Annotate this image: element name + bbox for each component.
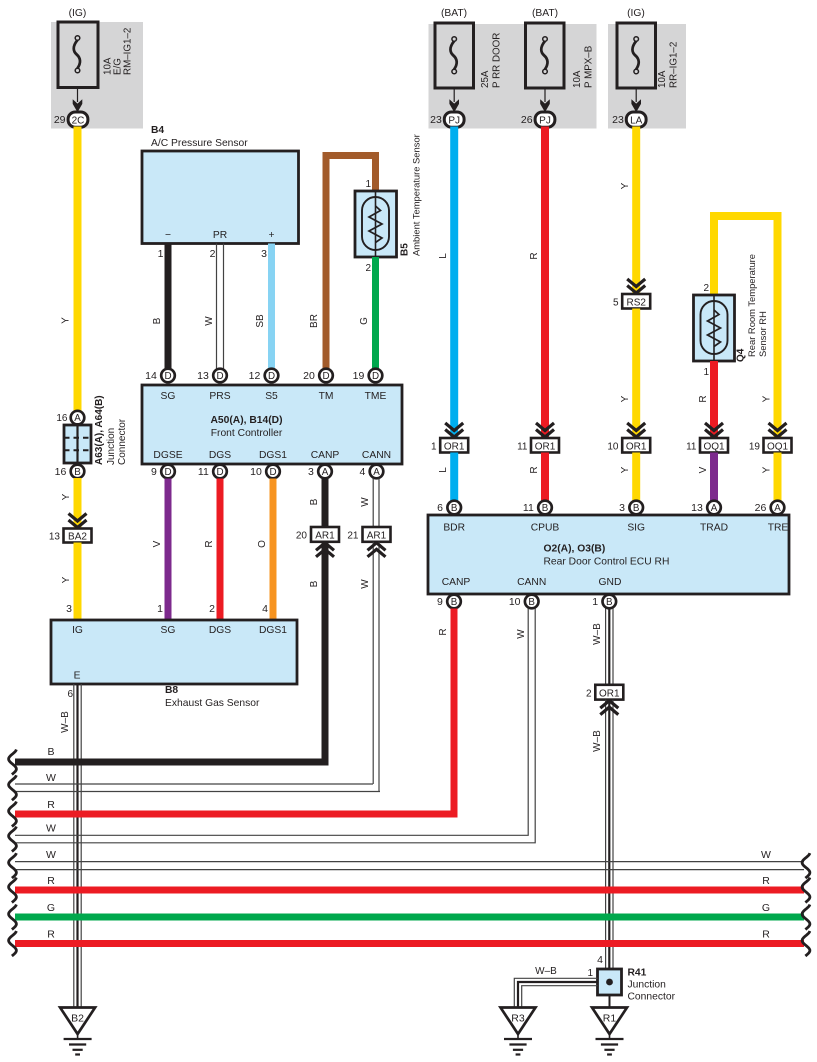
connector 2C pin 29 (54, 112, 88, 127)
component A50(A),B14(D) Front Controller (142, 385, 402, 464)
svg-text:Rear Door Control ECU RH: Rear Door Control ECU RH (544, 557, 670, 568)
svg-text:W–B: W–B (592, 623, 603, 645)
pin 1 B (GND) (592, 595, 616, 609)
connector 11 OQ1 (686, 438, 728, 453)
bus wire W1 horizontal (15, 784, 380, 792)
pin 9 D (DGSE) (151, 465, 175, 479)
break squiggle left R1 (9, 802, 17, 827)
svg-text:B: B (451, 597, 458, 608)
svg-text:A50(A), B14(D): A50(A), B14(D) (210, 415, 282, 426)
svg-text:W: W (46, 823, 56, 835)
svg-text:D: D (269, 467, 276, 478)
svg-text:Connector: Connector (628, 992, 676, 1003)
connector PJ pin 23 (430, 112, 464, 127)
svg-text:20: 20 (296, 531, 308, 542)
svg-text:W: W (360, 497, 371, 507)
component B5 Ambient Temperature Sensor (thermistor) (355, 134, 422, 274)
svg-text:R: R (529, 252, 540, 259)
wire Y from RS2 to connector OR1-10 (632, 309, 640, 439)
break squiggle right G (802, 905, 810, 930)
fuse F4 10A RR-IG1-2 (617, 8, 680, 88)
svg-text:3: 3 (66, 603, 72, 615)
svg-text:B: B (74, 467, 81, 478)
wire Y from OQ1-19 to TRE pin (774, 453, 782, 502)
svg-text:2: 2 (209, 603, 215, 615)
svg-text:14: 14 (145, 370, 157, 382)
svg-text:B4: B4 (151, 125, 164, 136)
svg-text:W: W (46, 849, 56, 861)
svg-text:V: V (152, 540, 163, 547)
svg-text:R: R (204, 540, 215, 547)
svg-text:2: 2 (365, 263, 371, 274)
svg-text:B: B (633, 503, 640, 514)
connector PJ pin 26 (521, 112, 555, 127)
svg-text:R: R (698, 395, 709, 402)
svg-text:Y: Y (61, 493, 72, 500)
svg-text:B: B (152, 317, 163, 324)
svg-text:G: G (359, 317, 370, 325)
svg-text:SIG: SIG (627, 523, 645, 534)
svg-text:W: W (46, 772, 56, 784)
connector 10 OR1 (607, 438, 650, 453)
svg-text:Q4: Q4 (736, 348, 747, 362)
svg-text:B2: B2 (71, 1013, 84, 1025)
svg-text:Front Controller: Front Controller (211, 428, 283, 439)
wire W-B from GND to OR1-2 (606, 609, 613, 685)
svg-text:21: 21 (347, 531, 359, 542)
wire W-B from OR1-2 down to R41 (606, 700, 613, 969)
wire R from OR1-11 to CPUB pin (541, 453, 549, 502)
wire B from AR1 down to black bus corner (322, 542, 329, 766)
svg-text:B8: B8 (165, 685, 178, 696)
svg-text:LA: LA (630, 115, 643, 126)
svg-text:D: D (216, 371, 223, 382)
svg-text:DGS: DGS (209, 625, 231, 636)
component O2(A),O3(B) Rear Door Control ECU RH (428, 515, 789, 594)
svg-text:OR1: OR1 (599, 688, 620, 699)
break squiggle right R2 (802, 878, 810, 903)
svg-text:1: 1 (592, 596, 598, 608)
svg-text:R: R (762, 875, 770, 887)
connector 2 OR1 (586, 685, 623, 700)
pin 13 A (TRAD) (691, 501, 721, 515)
svg-text:AR1: AR1 (367, 531, 387, 542)
svg-text:PRS: PRS (209, 391, 230, 402)
svg-text:Connector: Connector (117, 418, 128, 465)
chevrons below AR1-20 (316, 543, 334, 557)
svg-text:SB: SB (255, 314, 266, 328)
svg-text:25A: 25A (480, 70, 491, 88)
svg-text:OR1: OR1 (535, 442, 556, 453)
wire BR from TM up over to B5 pin 1 (326, 156, 376, 369)
svg-text:PR: PR (213, 230, 227, 241)
svg-text:TRAD: TRAD (700, 523, 728, 534)
break squiggle right R3 (802, 931, 810, 956)
chevrons into BA2 (69, 514, 87, 528)
wire W-B from R41 pin1 left and down to ground R3 (514, 978, 597, 1007)
svg-text:2: 2 (703, 283, 709, 294)
wire B from B4-1 to SG (165, 244, 172, 369)
svg-text:11: 11 (517, 442, 528, 453)
svg-text:R: R (762, 929, 770, 941)
svg-text:1: 1 (587, 968, 593, 979)
svg-text:B: B (528, 597, 535, 608)
svg-text:B: B (451, 503, 458, 514)
svg-text:TME: TME (365, 391, 387, 402)
svg-text:G: G (47, 902, 55, 914)
svg-text:P MPX–B: P MPX–B (584, 45, 595, 88)
component B8 Exhaust Gas Sensor (51, 620, 297, 709)
wire R from Q4 pin1 to connector OQ1-11 (710, 361, 718, 438)
fuse panel grey box middle (BAT,BAT) (429, 24, 597, 129)
svg-text:Y: Y (620, 395, 631, 402)
svg-text:(BAT): (BAT) (532, 8, 558, 19)
svg-text:RR–IG1–2: RR–IG1–2 (669, 42, 680, 88)
svg-text:TRE: TRE (768, 523, 789, 534)
ground B2 (60, 1008, 95, 1055)
svg-text:V: V (698, 466, 709, 473)
fuse panel grey box right (IG) (608, 24, 686, 129)
svg-text:23: 23 (430, 114, 442, 126)
wire W-B from B8 E to ground B2 (74, 684, 81, 1008)
break squiggle left B (9, 750, 17, 775)
svg-text:D: D (372, 371, 379, 382)
wire R from PJ-26 to connector OR1-11 (541, 127, 549, 439)
svg-text:B: B (309, 580, 320, 587)
fuse F1 10A E/G RM-IG1-2 (58, 8, 134, 88)
svg-text:10A: 10A (657, 70, 668, 88)
wire fuse F2 to connector PJ with arrow (449, 88, 459, 112)
fuse F3 10A P MPX-B (526, 8, 595, 88)
svg-text:W–B: W–B (592, 730, 603, 752)
chevrons into OR1-1 (445, 423, 463, 437)
svg-text:10: 10 (250, 466, 262, 478)
chevrons below OR1-2 (600, 701, 618, 715)
chevrons into OR1-11 (536, 423, 554, 437)
chevrons into OQ1-11 (705, 423, 723, 437)
svg-text:D: D (164, 467, 171, 478)
svg-text:Y: Y (61, 317, 72, 324)
svg-text:10: 10 (509, 596, 521, 608)
connector LA pin 23 (612, 112, 646, 127)
break squiggle left W2 (9, 827, 17, 852)
svg-text:S5: S5 (265, 391, 278, 402)
wire L from OR1-1 to BDR pin (450, 453, 458, 502)
svg-text:B: B (47, 746, 54, 758)
svg-text:2: 2 (210, 248, 216, 260)
bus wire R3 full width (15, 940, 804, 947)
svg-text:D: D (268, 371, 275, 382)
pin 14 D (SG) (145, 369, 175, 383)
wire W from CANN down to white bus 2 corner (15, 609, 535, 843)
svg-text:Y: Y (762, 395, 773, 402)
svg-text:Y: Y (762, 466, 773, 473)
svg-text:W: W (761, 849, 771, 861)
wire Y from LA-23 to RS2 (632, 127, 640, 295)
break squiggle left R3 (9, 931, 17, 956)
svg-text:+: + (268, 230, 274, 241)
svg-text:A: A (373, 467, 380, 478)
svg-text:IG: IG (72, 625, 83, 636)
svg-text:B: B (542, 503, 549, 514)
wire Y from junction B to BA2 (74, 478, 82, 529)
wire O from DGS1 to B8 DGS1 (270, 479, 277, 621)
svg-text:Ambient Temperature Sensor: Ambient Temperature Sensor (411, 134, 422, 256)
svg-text:9: 9 (437, 596, 443, 608)
svg-text:R: R (529, 466, 540, 473)
svg-text:A63(A), A64(B): A63(A), A64(B) (94, 395, 105, 465)
svg-text:R: R (47, 929, 55, 941)
svg-text:Exhaust Gas Sensor: Exhaust Gas Sensor (165, 698, 260, 709)
svg-text:L: L (438, 467, 449, 473)
svg-text:1: 1 (365, 179, 371, 190)
svg-text:19: 19 (749, 442, 761, 453)
svg-text:6: 6 (437, 502, 443, 514)
pin 20 D (TM) (303, 369, 333, 383)
svg-text:Y: Y (620, 466, 631, 473)
wire fuse F3 to connector PJ with arrow (540, 88, 550, 112)
wire W from CANN to AR1 (373, 479, 379, 528)
bus wire W3 full width (15, 862, 804, 870)
connector 20 AR1 (296, 527, 339, 542)
svg-text:1: 1 (703, 367, 709, 378)
svg-text:DGS1: DGS1 (259, 625, 287, 636)
wire Y loop from Q4 pin2 up and over down to OQ1-19 (714, 216, 778, 438)
svg-text:−: − (165, 230, 171, 241)
svg-text:AR1: AR1 (315, 531, 335, 542)
svg-text:11: 11 (686, 442, 697, 453)
svg-text:DGS: DGS (209, 450, 231, 461)
svg-text:23: 23 (612, 114, 624, 126)
svg-text:W: W (360, 579, 371, 589)
pin 10 B (CANN) (509, 595, 539, 609)
svg-text:PJ: PJ (539, 115, 551, 126)
wire fuse F4 to connector LA with arrow (631, 88, 641, 112)
svg-text:5: 5 (613, 298, 619, 309)
svg-text:16: 16 (55, 466, 67, 478)
svg-text:A/C Pressure Sensor: A/C Pressure Sensor (151, 138, 248, 149)
chevrons below AR1-21 (368, 543, 386, 557)
svg-text:BR: BR (309, 314, 320, 328)
svg-text:O2(A), O3(B): O2(A), O3(B) (544, 544, 606, 555)
svg-text:RM–IG1–2: RM–IG1–2 (123, 28, 134, 75)
wire R from CANP down to red bus corner (15, 609, 454, 815)
svg-text:CANN: CANN (362, 450, 391, 461)
junction connector A63(A),A64(B) (55, 395, 128, 478)
svg-text:D: D (322, 371, 329, 382)
svg-text:4: 4 (262, 603, 268, 615)
svg-text:OR1: OR1 (444, 442, 465, 453)
component B4 A/C Pressure Sensor (142, 125, 299, 244)
svg-text:B5: B5 (400, 243, 411, 256)
svg-text:A: A (74, 413, 81, 424)
svg-text:26: 26 (521, 114, 533, 126)
svg-text:SG: SG (161, 391, 176, 402)
svg-text:Sensor RH: Sensor RH (757, 311, 768, 357)
svg-text:TM: TM (319, 391, 334, 402)
svg-text:R: R (47, 875, 55, 887)
break squiggle right W3 (802, 853, 810, 878)
svg-text:10: 10 (607, 442, 619, 453)
svg-text:2: 2 (586, 688, 592, 699)
svg-text:20: 20 (303, 370, 315, 382)
svg-text:(BAT): (BAT) (441, 8, 467, 19)
svg-text:O: O (257, 540, 268, 548)
svg-text:A: A (774, 503, 781, 514)
svg-text:13: 13 (197, 370, 209, 382)
pin 4 A (CANN) (359, 465, 383, 479)
svg-text:R: R (438, 628, 449, 635)
break squiggle left G (9, 905, 17, 930)
svg-text:CANN: CANN (517, 577, 546, 588)
svg-text:BA2: BA2 (68, 532, 87, 543)
svg-text:PJ: PJ (448, 115, 460, 126)
connector 19 OQ1 (749, 438, 792, 453)
chevrons into OQ1-19 (769, 423, 787, 437)
svg-text:DGSE: DGSE (153, 450, 182, 461)
svg-text:6: 6 (67, 689, 73, 700)
svg-text:OQ1: OQ1 (767, 442, 789, 453)
bus wire G full width (15, 914, 804, 921)
wire B from CANP to AR1 (322, 479, 329, 528)
bus wire R2 full width (15, 887, 804, 894)
svg-text:10A: 10A (572, 70, 583, 88)
svg-text:B: B (309, 498, 320, 505)
svg-text:W: W (516, 629, 527, 639)
svg-text:W–B: W–B (535, 966, 557, 977)
pin 13 D (PRS) (197, 369, 227, 383)
svg-text:26: 26 (755, 502, 767, 514)
pin 11 B (CPUB) (523, 501, 552, 515)
break squiggle left R2 (9, 878, 17, 903)
svg-text:Y: Y (620, 182, 631, 189)
svg-text:R3: R3 (511, 1013, 525, 1025)
junction connector R41 (598, 968, 676, 1003)
pin 11 D (DGS) (198, 465, 227, 479)
svg-text:E: E (74, 671, 81, 682)
wire V from DGSE to B8 SG (165, 479, 172, 621)
wire V from OQ1-11 to TRAD pin (710, 453, 718, 502)
wire L from PJ-23 to connector OR1-1 (450, 127, 458, 439)
svg-text:9: 9 (151, 466, 157, 478)
svg-text:R41: R41 (628, 968, 647, 979)
connector 5 RS2 (613, 294, 650, 309)
svg-text:P RR DOOR: P RR DOOR (492, 33, 503, 88)
svg-text:3: 3 (261, 248, 267, 260)
wire G from B5 pin 2 to TME (372, 257, 379, 369)
connector 13 BA2 (49, 529, 92, 543)
svg-text:Y: Y (61, 576, 72, 583)
svg-text:CANP: CANP (442, 577, 471, 588)
svg-text:D: D (164, 371, 171, 382)
pin 3 A (CANP) (308, 465, 332, 479)
wire from R41 to ground R1 (609, 995, 611, 1008)
pin 3 B (SIG) (619, 501, 643, 515)
svg-text:19: 19 (353, 370, 365, 382)
component Q4 Rear Room Temperature Sensor RH (thermistor) (694, 254, 769, 378)
svg-text:1: 1 (431, 442, 437, 453)
fuse panel grey box left (IG) (51, 22, 143, 129)
svg-text:BDR: BDR (443, 523, 465, 534)
wire W from B4-2 to PRS (217, 244, 224, 369)
svg-text:W–B: W–B (60, 711, 71, 733)
svg-text:16: 16 (56, 413, 68, 424)
svg-text:3: 3 (619, 502, 625, 514)
wire fuse F1 to connector 2C with arrow (73, 88, 83, 113)
chevrons into OR1-10 (627, 423, 645, 437)
svg-text:13: 13 (691, 502, 703, 514)
svg-text:4: 4 (597, 954, 603, 966)
wire W from AR1-21 down to white bus 1 corner (373, 542, 379, 792)
fuse F2 25A P RR DOOR (435, 8, 503, 88)
svg-text:GND: GND (599, 577, 622, 588)
pin 12 D (S5) (249, 369, 279, 383)
svg-text:1: 1 (158, 248, 164, 260)
svg-text:Junction: Junction (106, 428, 117, 465)
svg-text:W: W (204, 316, 215, 326)
break squiggle left W1 (9, 775, 17, 800)
svg-text:CPUB: CPUB (531, 523, 560, 534)
ground R1 (592, 1008, 627, 1055)
svg-text:A: A (322, 467, 329, 478)
svg-text:G: G (762, 902, 770, 914)
svg-text:OQ1: OQ1 (703, 442, 725, 453)
svg-text:(IG): (IG) (627, 8, 645, 19)
svg-text:L: L (438, 253, 449, 259)
ground R3 (501, 1008, 536, 1055)
wire Y from OR1-10 to SIG pin (632, 453, 640, 502)
chevrons into RS2 (627, 279, 645, 293)
svg-text:13: 13 (49, 532, 61, 543)
break squiggle left W3 (9, 853, 17, 878)
svg-text:4: 4 (359, 466, 365, 478)
bus wire B horizontal (15, 759, 329, 766)
pin 10 D (DGS1) (250, 465, 280, 479)
svg-text:SG: SG (161, 625, 176, 636)
svg-text:R: R (47, 799, 55, 811)
svg-text:12: 12 (249, 370, 261, 382)
pin 19 D (TME) (353, 369, 383, 383)
connector 21 AR1 (347, 527, 390, 542)
svg-text:DGS1: DGS1 (259, 450, 287, 461)
svg-text:Junction: Junction (628, 980, 667, 991)
svg-text:11: 11 (198, 466, 209, 478)
wire Y from BA2 to B8 IG (74, 543, 82, 621)
svg-text:RS2: RS2 (626, 298, 646, 309)
svg-text:CANP: CANP (311, 450, 340, 461)
pin 9 B (CANP) (437, 595, 461, 609)
svg-text:11: 11 (523, 502, 534, 514)
svg-text:OR1: OR1 (626, 442, 647, 453)
svg-text:Rear Room Temperature: Rear Room Temperature (746, 254, 757, 357)
pin 26 A (TRE) (755, 501, 785, 515)
svg-text:B: B (606, 597, 613, 608)
svg-text:D: D (216, 467, 223, 478)
svg-text:29: 29 (54, 114, 66, 126)
svg-text:(IG): (IG) (69, 8, 87, 19)
connector 1 OR1 (431, 438, 468, 453)
svg-text:1: 1 (157, 603, 163, 615)
pin 6 B (BDR) (437, 501, 461, 515)
wire SB from B4-3 to S5 (268, 244, 275, 369)
wire Y from 2C down to junction A63 (74, 127, 82, 413)
wire R from DGS to B8 DGS (217, 479, 224, 621)
svg-text:2C: 2C (72, 115, 85, 126)
svg-text:3: 3 (308, 466, 314, 478)
connector 11 OR1 (517, 438, 559, 453)
svg-text:A: A (711, 503, 718, 514)
svg-text:R1: R1 (603, 1013, 617, 1025)
